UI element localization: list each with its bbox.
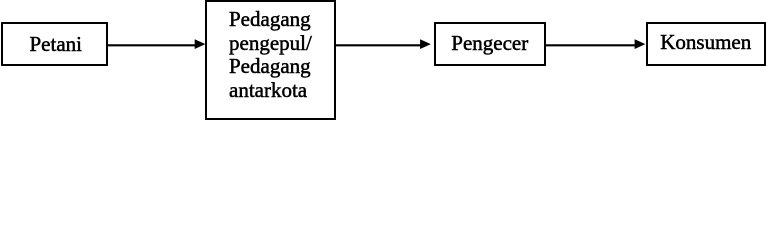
box Pedagang pengepul/Pedagang antarkota xyxy=(205,0,336,120)
box Pengecer xyxy=(434,22,547,66)
arrow Pengecer to Konsumen xyxy=(545,39,645,49)
box Konsumen xyxy=(646,22,766,66)
box Petani xyxy=(1,22,108,66)
arrow Pedagang to Pengecer xyxy=(334,39,431,49)
arrow Petani to Pedagang xyxy=(107,39,205,49)
